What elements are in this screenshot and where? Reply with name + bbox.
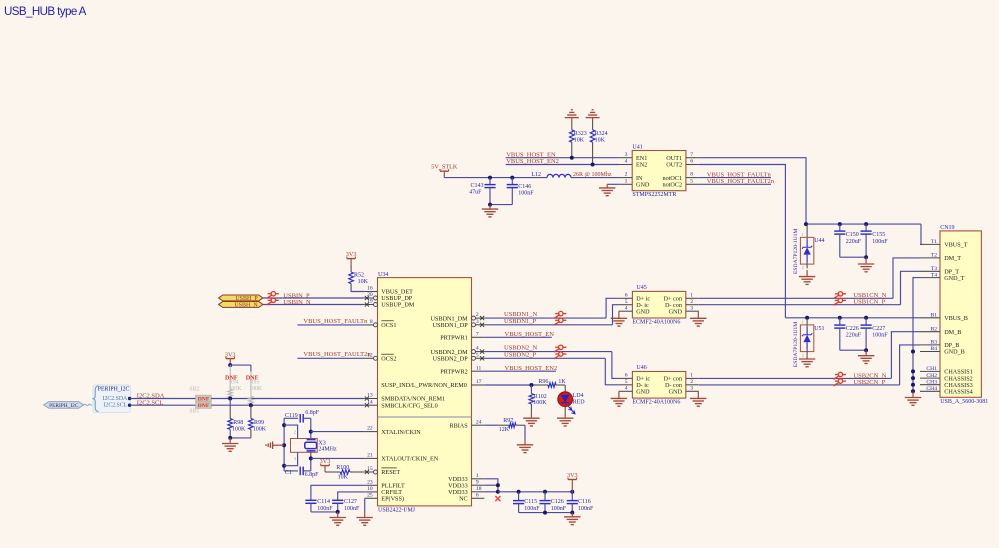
svg-text:OCS2: OCS2 [381, 356, 396, 363]
svg-text:2: 2 [802, 266, 804, 270]
svg-text:100K: 100K [249, 386, 263, 392]
svg-text:R100: R100 [336, 465, 349, 471]
svg-text:R95: R95 [250, 380, 260, 386]
svg-text:22: 22 [367, 426, 373, 432]
svg-text:1: 1 [802, 320, 804, 324]
svg-text:6.8pF: 6.8pF [305, 472, 320, 478]
svg-text:16: 16 [367, 286, 373, 292]
svg-text:5: 5 [625, 299, 628, 305]
svg-text:1: 1 [690, 373, 693, 379]
svg-text:3: 3 [690, 385, 693, 391]
svg-text:100nF: 100nF [524, 506, 540, 512]
svg-text:C150: C150 [846, 232, 859, 238]
svg-text:4: 4 [625, 159, 628, 165]
svg-text:8: 8 [690, 172, 693, 178]
svg-text:CN19: CN19 [940, 225, 954, 231]
svg-text:LD4: LD4 [573, 393, 584, 399]
svg-text:DM_T: DM_T [944, 255, 961, 262]
svg-text:I2C2.SDA: I2C2.SDA [103, 396, 128, 402]
svg-text:B3: B3 [930, 340, 937, 346]
svg-text:T4: T4 [931, 272, 937, 278]
svg-text:100nF: 100nF [872, 239, 888, 245]
svg-text:XTALOUT/CKIN_EN: XTALOUT/CKIN_EN [381, 456, 438, 463]
svg-text:L12: L12 [531, 172, 541, 178]
svg-text:C143: C143 [470, 183, 483, 189]
svg-text:1: 1 [690, 292, 693, 298]
svg-text:RED: RED [573, 400, 586, 406]
svg-text:3: 3 [625, 152, 628, 158]
svg-text:VBUS_T: VBUS_T [944, 242, 968, 249]
svg-text:17: 17 [476, 379, 482, 385]
svg-text:R97: R97 [503, 418, 513, 424]
svg-text:1: 1 [476, 473, 479, 479]
svg-text:R94: R94 [229, 380, 239, 386]
svg-text:NC: NC [459, 496, 468, 503]
svg-text:24MHz: 24MHz [318, 446, 337, 452]
svg-text:USB_HUB type A: USB_HUB type A [4, 5, 87, 18]
svg-text:U46: U46 [636, 365, 646, 371]
svg-text:CH1: CH1 [926, 366, 937, 372]
svg-text:220uF: 220uF [846, 333, 862, 339]
svg-text:C114: C114 [317, 499, 330, 505]
svg-text:GND: GND [636, 308, 650, 315]
svg-text:DNF: DNF [198, 403, 210, 409]
svg-text:RBIAS: RBIAS [449, 422, 468, 429]
svg-text:C227: C227 [872, 326, 885, 332]
svg-text:EP(VSS): EP(VSS) [381, 496, 404, 503]
svg-text:C119: C119 [285, 413, 298, 419]
svg-text:6: 6 [625, 292, 628, 298]
svg-text:100K: 100K [253, 426, 267, 432]
svg-text:2: 2 [690, 379, 693, 385]
svg-text:100nF: 100nF [317, 506, 333, 512]
svg-text:2: 2 [802, 354, 804, 358]
svg-text:EN2: EN2 [636, 162, 647, 169]
svg-text:3V3: 3V3 [225, 351, 236, 358]
svg-text:2: 2 [476, 312, 479, 318]
svg-text:18: 18 [476, 486, 482, 492]
svg-text:PRTPWR2: PRTPWR2 [440, 368, 467, 375]
svg-text:C126: C126 [551, 499, 564, 505]
svg-text:5V_STLK: 5V_STLK [431, 164, 458, 171]
svg-text:XTALIN/CKIN: XTALIN/CKIN [381, 429, 421, 436]
svg-text:21: 21 [367, 453, 373, 459]
svg-text:100K: 100K [232, 426, 246, 432]
svg-text:DM_B: DM_B [944, 329, 961, 336]
svg-text:USB2422-I/MJ: USB2422-I/MJ [378, 508, 416, 514]
svg-text:B2: B2 [930, 326, 937, 332]
svg-text:100K: 100K [229, 386, 243, 392]
svg-text:5: 5 [476, 352, 479, 358]
svg-text:USBDN1_DP: USBDN1_DP [433, 322, 469, 329]
svg-text:10K: 10K [574, 138, 585, 144]
svg-text:9: 9 [476, 479, 479, 485]
svg-text:CH2: CH2 [926, 373, 937, 379]
svg-text:USBDN1_P: USBDN1_P [504, 318, 537, 325]
svg-text:U34: U34 [378, 272, 388, 278]
svg-text:PRTPWR1: PRTPWR1 [440, 335, 467, 342]
svg-text:2: 2 [625, 172, 628, 178]
svg-text:SMBCLK/CFG_SEL0: SMBCLK/CFG_SEL0 [381, 402, 437, 409]
svg-text:11: 11 [476, 365, 482, 371]
svg-text:10K: 10K [358, 279, 369, 285]
svg-text:100K: 100K [533, 400, 547, 406]
svg-text:GND: GND [669, 389, 683, 396]
svg-text:3: 3 [294, 457, 296, 461]
svg-text:ECMF2-40A100N6: ECMF2-40A100N6 [632, 400, 680, 406]
svg-text:6: 6 [625, 373, 628, 379]
svg-text:47uF: 47uF [469, 190, 482, 196]
svg-text:1: 1 [625, 178, 628, 184]
svg-text:10K: 10K [595, 138, 606, 144]
svg-text:U44: U44 [814, 238, 824, 244]
svg-text:ESDA7P120-1U1M: ESDA7P120-1U1M [793, 322, 799, 367]
svg-text:3: 3 [476, 319, 479, 325]
svg-text:12K: 12K [499, 427, 510, 433]
svg-text:23: 23 [367, 479, 373, 485]
svg-text:I2C2.SCL: I2C2.SCL [104, 403, 128, 409]
svg-text:GND: GND [636, 182, 650, 189]
svg-text:USB1CN_P: USB1CN_P [853, 299, 885, 306]
svg-text:VBUS_B: VBUS_B [944, 315, 968, 322]
svg-text:RESET: RESET [381, 469, 400, 476]
svg-text:C146: C146 [518, 184, 531, 190]
svg-text:C226: C226 [846, 326, 859, 332]
svg-text:CH4: CH4 [926, 386, 937, 392]
svg-text:B4: B4 [930, 346, 937, 352]
svg-text:VBUS_HOST_EN: VBUS_HOST_EN [505, 331, 555, 338]
svg-text:6.8pF: 6.8pF [305, 410, 320, 416]
svg-text:T1: T1 [931, 239, 937, 245]
svg-text:VBUS_HOST_EN2: VBUS_HOST_EN2 [506, 158, 559, 165]
svg-text:U41: U41 [632, 145, 642, 151]
svg-text:SB2: SB2 [189, 387, 199, 393]
svg-text:4: 4 [476, 346, 479, 352]
svg-text:100nF: 100nF [518, 191, 534, 197]
svg-text:1K: 1K [558, 379, 566, 385]
svg-text:6: 6 [690, 159, 693, 165]
svg-text:OUT2: OUT2 [666, 162, 682, 169]
svg-text:C1: C1 [285, 470, 292, 476]
svg-text:2: 2 [690, 299, 693, 305]
svg-text:CHASSIS4: CHASSIS4 [944, 389, 973, 396]
svg-text:VBUS_HOST_FAULT2n: VBUS_HOST_FAULT2n [303, 351, 371, 358]
svg-text:SB1: SB1 [189, 409, 199, 415]
svg-text:4: 4 [625, 385, 628, 391]
svg-text:notOC2: notOC2 [662, 182, 682, 189]
svg-text:VBUS_HOST_EN2: VBUS_HOST_EN2 [505, 365, 558, 372]
svg-text:100nF: 100nF [344, 506, 360, 512]
svg-text:PERIPH_I2C: PERIPH_I2C [49, 403, 79, 409]
svg-text:R102: R102 [534, 394, 547, 400]
svg-text:VBUS_HOST_FAULT2n: VBUS_HOST_FAULT2n [707, 178, 775, 185]
svg-text:4: 4 [625, 305, 628, 311]
svg-text:3V3: 3V3 [320, 458, 331, 465]
svg-text:CH3: CH3 [926, 379, 937, 385]
svg-text:25: 25 [367, 492, 373, 498]
svg-text:T3: T3 [931, 266, 937, 272]
svg-text:100nF: 100nF [578, 506, 594, 512]
svg-text:R96: R96 [538, 379, 548, 385]
svg-text:SUSP_IND/L_PWR/NON_REM0: SUSP_IND/L_PWR/NON_REM0 [381, 382, 467, 389]
svg-text:C127: C127 [344, 499, 357, 505]
svg-text:T2: T2 [931, 253, 937, 259]
svg-text:ESDA7P120-1U1M: ESDA7P120-1U1M [793, 229, 799, 274]
svg-text:GND_B: GND_B [944, 349, 965, 356]
svg-text:GND: GND [669, 308, 683, 315]
svg-text:100nF: 100nF [872, 333, 888, 339]
svg-text:3V3: 3V3 [346, 251, 357, 258]
svg-text:USB2CN_P: USB2CN_P [853, 379, 885, 386]
svg-text:DNF: DNF [198, 396, 210, 402]
svg-text:VBUS_HOST_FAULTn: VBUS_HOST_FAULTn [303, 318, 368, 325]
svg-text:C116: C116 [578, 499, 591, 505]
svg-text:C155: C155 [872, 232, 885, 238]
svg-text:U45: U45 [636, 285, 646, 291]
svg-text:2: 2 [294, 430, 296, 434]
svg-text:R99: R99 [254, 420, 264, 426]
svg-text:3: 3 [690, 305, 693, 311]
svg-text:R52: R52 [354, 272, 364, 278]
svg-text:10K: 10K [338, 475, 349, 481]
svg-text:PERIPH_I2C: PERIPH_I2C [98, 387, 130, 393]
svg-text:5: 5 [690, 178, 693, 184]
svg-text:USB_A_5600-3081: USB_A_5600-3081 [940, 399, 988, 405]
svg-text:1: 1 [802, 233, 804, 237]
svg-text:U51: U51 [814, 326, 824, 332]
svg-text:100nF: 100nF [551, 506, 567, 512]
svg-text:10: 10 [367, 486, 373, 492]
svg-text:3V3: 3V3 [567, 472, 578, 479]
svg-text:USBIN_N: USBIN_N [283, 299, 311, 306]
svg-text:I2C2.SCL: I2C2.SCL [137, 399, 164, 406]
svg-text:USBDN2_DP: USBDN2_DP [433, 356, 469, 363]
svg-text:R98: R98 [233, 420, 243, 426]
svg-text:24: 24 [476, 419, 482, 425]
svg-text:B1: B1 [930, 313, 937, 319]
svg-text:C115: C115 [524, 499, 537, 505]
svg-text:USBDN2_P: USBDN2_P [504, 351, 537, 358]
svg-text:GND_T: GND_T [944, 275, 964, 282]
svg-text:5: 5 [625, 379, 628, 385]
svg-text:R324: R324 [595, 131, 608, 137]
svg-text:220uF: 220uF [846, 239, 862, 245]
svg-text:USBUP_DM: USBUP_DM [381, 302, 415, 309]
svg-text:7: 7 [476, 331, 479, 337]
svg-text:STMPS2252MTR: STMPS2252MTR [632, 192, 676, 198]
svg-text:OCS1: OCS1 [381, 322, 396, 329]
svg-text:USBH_N: USBH_N [234, 303, 258, 309]
svg-text:26R @ 100Mhz: 26R @ 100Mhz [573, 172, 612, 178]
svg-text:6: 6 [476, 492, 479, 498]
svg-text:8: 8 [370, 319, 373, 325]
svg-text:7: 7 [690, 152, 693, 158]
svg-text:R323: R323 [574, 131, 587, 137]
svg-text:ECMF2-40A100N6: ECMF2-40A100N6 [632, 319, 680, 325]
svg-text:GND: GND [636, 389, 650, 396]
